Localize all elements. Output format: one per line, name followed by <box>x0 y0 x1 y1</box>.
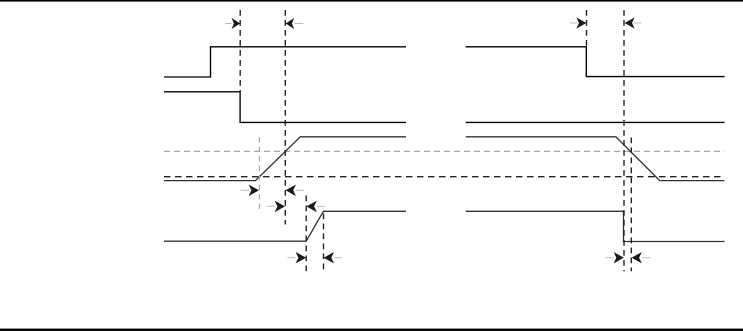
dimension row3 left: arrow right-pointing <box>296 252 306 264</box>
dimension bottom-right: arrow left-pointing <box>632 252 642 263</box>
dimension row2 left: arrow right-pointing <box>275 201 285 213</box>
dimension bottom-right: arrow right-pointing <box>614 252 624 263</box>
dimension t2 top-right: stub left <box>570 22 577 24</box>
dimension row2 left: stub left <box>267 205 275 207</box>
waveform W3 left (output ramp rising) <box>164 137 406 181</box>
dimension row1 left: arrow right-pointing <box>249 185 259 197</box>
threshold line 50% black dashed <box>164 176 725 178</box>
dimension row1 left: stub right <box>296 189 304 191</box>
dimension t1 top-left: arrow left-pointing <box>286 18 295 29</box>
cursor dashed vertical at ramp/VIT crossing x=285 <box>284 10 286 225</box>
cursor dashed vertical gray at ramp/50% crossing x=259 <box>258 137 260 213</box>
dimension t2 top-right: stub right <box>633 22 641 24</box>
bottom rule <box>0 329 743 331</box>
waveform W4 right (output falling) <box>466 211 725 241</box>
dimension t1 top-left: arrow right-pointing <box>232 18 241 29</box>
cursor dashed vertical at W1-right fall x=586.5 <box>586 10 588 47</box>
dimension row2 left: arrow left-pointing <box>307 201 317 213</box>
cursor dashed vertical at W2-left fall x=240 <box>239 10 241 92</box>
dimension row1 left: arrow left-pointing <box>286 185 296 197</box>
dimension row3 left: stub right <box>334 257 342 259</box>
threshold line VIT gray dashed <box>164 150 725 152</box>
cursor dashed vertical at W4-left ramp start x=306 <box>305 196 307 272</box>
dimension t2 top-right: arrow left-pointing <box>625 17 635 28</box>
dimension bottom-right: stub left <box>606 257 614 259</box>
dimension t1 top-left: stub left <box>225 23 231 25</box>
top rule <box>0 0 743 2</box>
dimension t2 top-right: arrow right-pointing <box>576 17 586 28</box>
dimension bottom-right: stub right <box>642 257 650 259</box>
waveform W1 left (input rising) <box>164 47 406 77</box>
dimension row1 left: stub left <box>241 189 249 191</box>
waveform W2 right (flat) <box>466 121 725 123</box>
dimension row2 left: stub right <box>317 205 325 207</box>
waveform W4 left (output rising) <box>164 211 406 241</box>
dimension row3 left: stub left <box>288 257 296 259</box>
cursor dashed vertical long at W4-right fall x=624 <box>623 10 625 271</box>
waveform W2 left (input falling) <box>164 92 406 123</box>
dimension t1 top-left: stub right <box>294 23 303 25</box>
cursor dashed vertical at W4-left ramp end x=323.5 <box>323 214 325 272</box>
waveform W1 right (input falling) <box>466 47 725 77</box>
dimension row3 left: arrow left-pointing <box>324 252 334 264</box>
waveform W3 right (output ramp falling) <box>466 137 725 181</box>
cursor dashed vertical at right ramp/VIT crossing x=631.3 <box>630 138 632 272</box>
